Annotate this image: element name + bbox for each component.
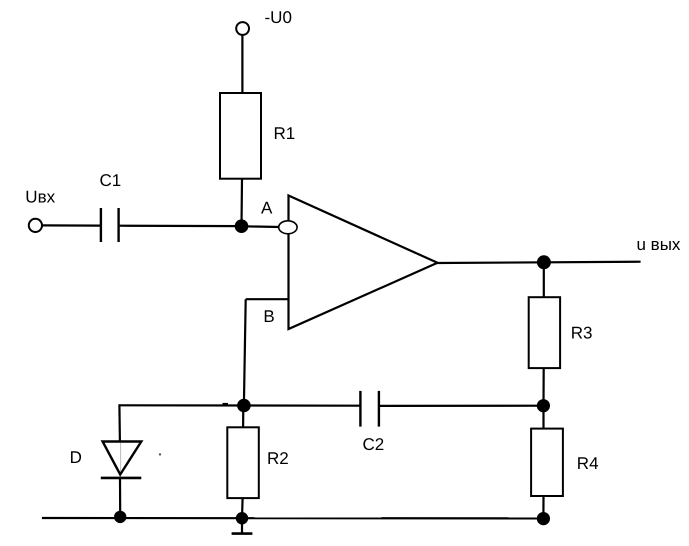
node bottom-left xyxy=(114,511,126,523)
capacitor C1 xyxy=(101,208,119,242)
wire R1 to node A xyxy=(240,179,243,226)
svg-text:B: B xyxy=(263,307,274,326)
svg-text:u вых: u вых xyxy=(637,235,681,254)
node output xyxy=(537,255,551,269)
wire -U0 terminal to R1 xyxy=(241,35,243,93)
wire R2 to ground node xyxy=(241,498,244,518)
wire mid-right node to R4 xyxy=(542,406,544,429)
svg-text:R1: R1 xyxy=(274,124,296,143)
svg-text:R2: R2 xyxy=(267,449,289,468)
resistor R3 xyxy=(529,297,560,368)
op-amp U1 xyxy=(289,196,438,330)
svg-text:D: D xyxy=(70,448,82,467)
wire diode to bottom rail xyxy=(119,478,121,517)
wire op-amp output xyxy=(437,262,641,263)
wire corner to diode xyxy=(118,404,121,441)
stray dot xyxy=(159,453,161,455)
wire stub near node xyxy=(223,403,229,406)
resistor R1 xyxy=(220,93,261,179)
wire C2 to mid-right node xyxy=(380,405,544,407)
wire C1 to node A xyxy=(120,225,242,228)
wire mid-left node to R2 xyxy=(242,406,244,428)
diode D xyxy=(101,442,142,478)
node mid-right xyxy=(537,399,550,412)
svg-text:C1: C1 xyxy=(100,171,122,190)
svg-text:R4: R4 xyxy=(577,454,599,473)
node mid-left xyxy=(237,399,251,413)
ground xyxy=(232,518,253,534)
svg-text:C2: C2 xyxy=(363,435,385,454)
terminal Uвх xyxy=(29,219,42,232)
wire Uвх to C1 xyxy=(42,224,100,226)
node bottom-mid xyxy=(236,512,248,524)
svg-text:-U0: -U0 xyxy=(265,8,292,27)
svg-text:Uвх: Uвх xyxy=(25,188,55,207)
wire R4 to bottom node xyxy=(542,496,544,519)
terminal -U0 xyxy=(236,22,249,35)
wire node B vertical xyxy=(244,299,246,405)
wire R3 to mid node xyxy=(542,368,544,406)
wire node A to op-amp input xyxy=(247,225,280,228)
capacitor C2 xyxy=(360,391,379,427)
wire mid rail left xyxy=(119,404,360,407)
node A xyxy=(235,219,249,233)
op-amp inverting input bubble xyxy=(279,221,297,234)
node bottom-right xyxy=(537,512,550,525)
wire output node to R3 xyxy=(543,262,545,297)
wire op-amp input B xyxy=(246,298,289,300)
resistor R4 xyxy=(531,429,563,496)
svg-text:A: A xyxy=(261,199,273,218)
wire bottom rail xyxy=(42,517,544,520)
resistor R2 xyxy=(227,427,258,498)
svg-text:R3: R3 xyxy=(571,323,593,342)
